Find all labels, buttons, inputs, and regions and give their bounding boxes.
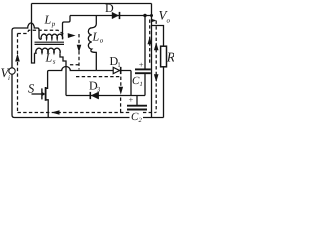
- mosfet S gate lead: [32, 93, 42, 95]
- wire Vi to Lp entry corner: [38, 28, 42, 39]
- wire Ls right leg down to D3 line: [60, 53, 66, 95]
- inductor Ls winding: [35, 48, 61, 53]
- inductor Lp winding: [41, 34, 63, 39]
- capacitor C1 bottom lead: [144, 73, 146, 95]
- wire S drain to D1 line with hop over x66: [46, 67, 97, 89]
- junction dot at output corner: [150, 14, 153, 17]
- junction dot at C1 top: [143, 14, 146, 17]
- capacitor C2 top lead: [136, 96, 138, 106]
- arrow right down: [154, 74, 159, 82]
- wire right output rail: [151, 4, 153, 118]
- dashed current loops: [18, 20, 157, 113]
- svg-text:1: 1: [140, 81, 143, 88]
- resistor RL box: [161, 46, 167, 67]
- svg-text:L: L: [45, 51, 53, 65]
- diode D3: [90, 92, 98, 99]
- svg-text:i: i: [8, 74, 10, 82]
- diode D: [112, 12, 120, 19]
- svg-text:R: R: [166, 50, 174, 65]
- svg-text:p: p: [51, 20, 56, 28]
- mosfet S arrow: [43, 92, 46, 96]
- wire top outer rail: [32, 3, 152, 5]
- svg-text:3: 3: [97, 86, 101, 94]
- source Vi circle: [9, 68, 15, 74]
- wire Lp exit to inner top line: [63, 16, 71, 40]
- svg-text:o: o: [100, 37, 104, 45]
- dashed loop2 vertical: [120, 77, 122, 86]
- svg-text:o: o: [167, 17, 171, 25]
- arrow right up: [154, 42, 159, 50]
- dashed C1 loop vertical: [149, 20, 151, 65]
- wire D1 line: [96, 70, 131, 72]
- wire left vertical from top rail to Ls: [32, 4, 35, 64]
- dashed bottom shared: [18, 112, 156, 114]
- arrow loop1 up: [15, 54, 20, 62]
- capacitor C2 plates: [127, 105, 147, 107]
- svg-text:+: +: [129, 95, 134, 105]
- svg-text:D: D: [105, 1, 114, 15]
- diode D1: [113, 67, 121, 74]
- svg-text:1: 1: [117, 61, 121, 69]
- arrow loop2 down: [119, 87, 124, 95]
- wire D1 cathode down to D3 line: [130, 71, 132, 96]
- svg-text:L: L: [92, 30, 100, 44]
- capacitor C1 plates: [135, 68, 151, 70]
- arrow bottom left: [52, 110, 60, 115]
- capacitor C2 bottom lead: [136, 110, 138, 118]
- mosfet S channel bar: [45, 87, 47, 101]
- svg-text:L: L: [44, 13, 52, 27]
- svg-text:+: +: [139, 59, 144, 69]
- capacitor C1 top lead: [144, 16, 146, 70]
- dashed loop2 horizontal: [76, 76, 121, 78]
- dashed loop1 mid vertical: [78, 34, 80, 70]
- mosfet S gate bar: [41, 88, 43, 99]
- arrow loop1 right: [68, 33, 76, 38]
- label C2 with white backing: [130, 111, 144, 122]
- wire inner top line to diode D and onward: [70, 15, 152, 17]
- dashed loop1 left vertical: [17, 34, 19, 113]
- resistor RL bottom lead: [163, 67, 165, 118]
- core lines of coupled inductor: [35, 41, 65, 43]
- wire Vi branch: left rail, bottom rail, hop over x31.5: [12, 23, 164, 117]
- arrow C1 loop up: [148, 37, 152, 45]
- arrow right corner: [151, 19, 156, 23]
- svg-text:S: S: [28, 82, 35, 96]
- arrow loop1 down: [77, 45, 82, 53]
- dashed right loop vertical: [152, 20, 156, 22]
- inductor Lo vertical winding with leads: [88, 16, 96, 71]
- svg-text:s: s: [53, 58, 56, 66]
- resistor RL top lead: [152, 26, 164, 47]
- wire D3 line: [66, 95, 145, 97]
- mosfet S source lead: [46, 100, 49, 118]
- dashed loop1 top: [18, 30, 64, 34]
